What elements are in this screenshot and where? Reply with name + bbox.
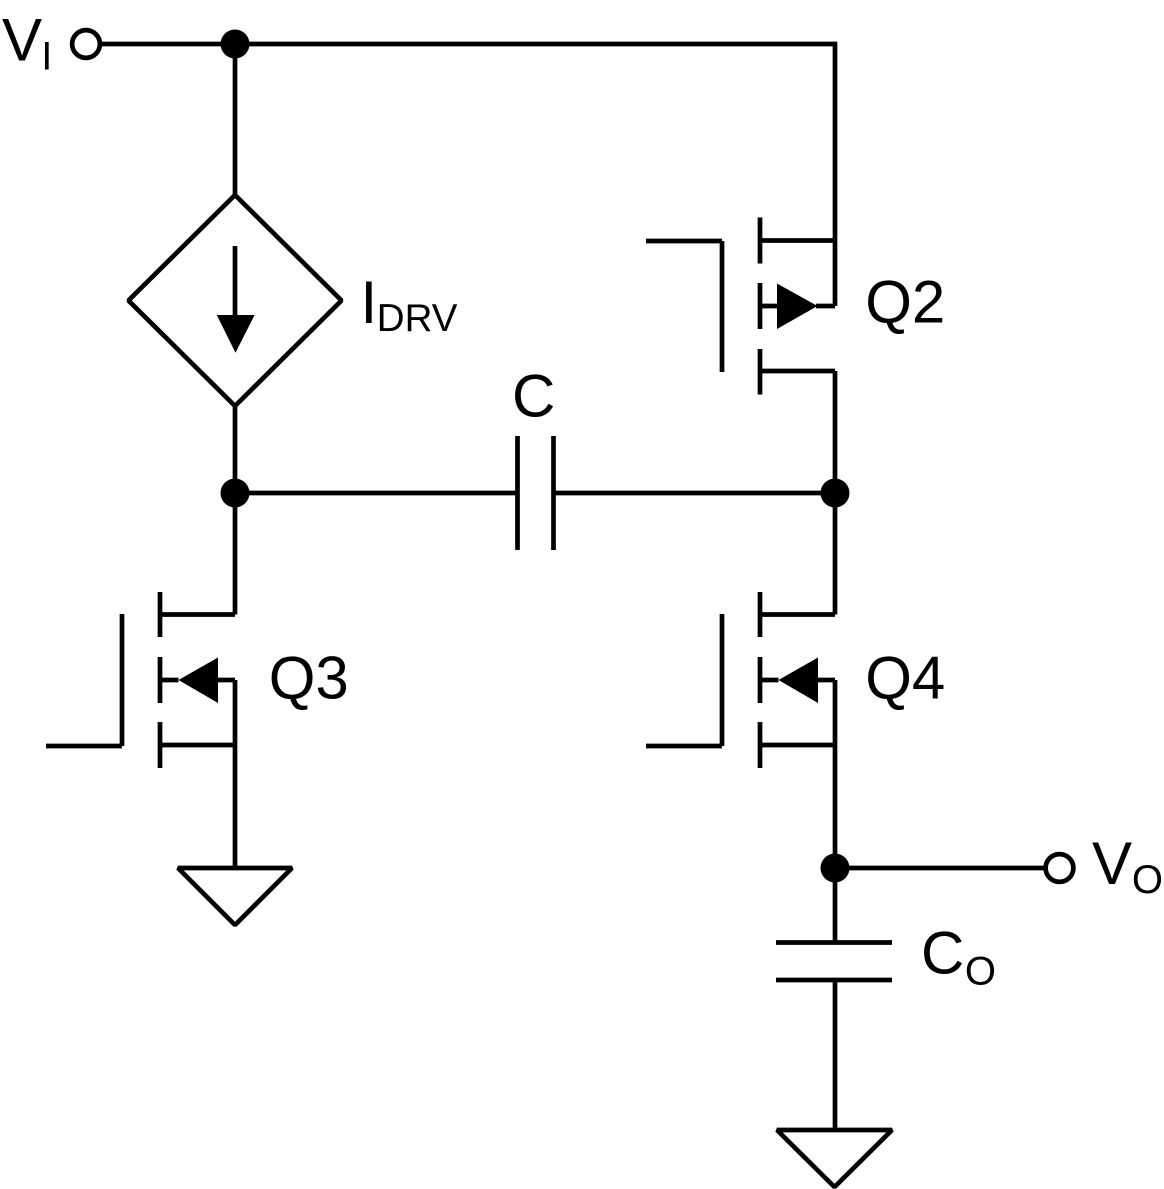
current source IDRV (129, 195, 342, 406)
terminal VI (72, 30, 100, 58)
label Q3 (269, 645, 349, 712)
wire IDRV to node B (233, 406, 238, 493)
svg-text:V: V (2, 7, 42, 74)
wire VI terminal to node A (100, 42, 235, 47)
wire node A to Q2 drain (top rail) (235, 44, 835, 306)
transistor Q4 (646, 592, 835, 768)
label CO (921, 920, 996, 994)
svg-text:Q4: Q4 (865, 645, 945, 712)
wire Q4 source to node D (833, 680, 838, 868)
svg-text:I: I (361, 269, 378, 336)
svg-text:O: O (965, 950, 996, 994)
label Q2 (865, 269, 945, 336)
node A (221, 30, 250, 59)
wire Q3 source to ground (233, 680, 238, 868)
svg-text:C: C (921, 920, 964, 987)
label VI (2, 7, 52, 79)
node B (221, 479, 250, 508)
transistor Q2 (646, 218, 835, 395)
capacitor CO (776, 943, 892, 981)
wire node A down to IDRV (233, 44, 238, 196)
svg-text:O: O (1132, 858, 1163, 902)
capacitor C (518, 436, 554, 550)
terminal VO (1046, 854, 1074, 882)
label C (512, 363, 555, 430)
label VO (1092, 830, 1163, 902)
label Q4 (865, 645, 945, 712)
ground (CO) (777, 1130, 892, 1187)
wire node B down to Q3 drain (233, 493, 238, 615)
ground (Q3) (178, 868, 292, 925)
node C (821, 479, 850, 508)
svg-text:Q3: Q3 (269, 645, 349, 712)
svg-text:I: I (41, 35, 52, 79)
svg-text:V: V (1092, 830, 1132, 897)
svg-text:Q2: Q2 (865, 269, 945, 336)
wire node D to VO terminal (835, 866, 1046, 871)
svg-text:DRV: DRV (377, 297, 458, 340)
label IDRV (361, 269, 458, 340)
node D (821, 854, 850, 883)
transistor Q3 (46, 592, 235, 768)
wire capacitor C to node C (554, 491, 836, 496)
wire CO to ground (833, 980, 838, 1130)
wire node C down to Q4 drain (833, 493, 838, 615)
wire node D down to CO (833, 868, 838, 943)
wire node B to capacitor C (235, 491, 518, 496)
svg-text:C: C (512, 363, 555, 430)
wire Q2 source to node C (833, 371, 838, 493)
